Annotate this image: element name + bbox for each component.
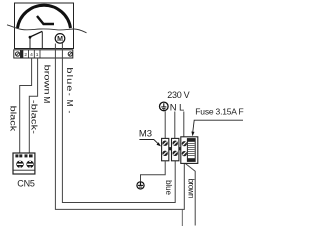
svg-text:Fuse 3.15A F: Fuse 3.15A F: [195, 107, 243, 117]
svg-text:M: M: [57, 36, 63, 43]
svg-text:N: N: [170, 102, 177, 113]
svg-text:blue: blue: [164, 180, 173, 195]
svg-text:black: black: [8, 106, 17, 132]
svg-text:2: 2: [24, 52, 27, 58]
svg-text:brown: brown: [186, 179, 195, 199]
svg-text:230 V: 230 V: [167, 90, 189, 100]
svg-text:brown: brown: [42, 65, 51, 95]
svg-text:1: 1: [36, 52, 39, 58]
svg-text:M: M: [42, 96, 52, 103]
svg-text:CN5: CN5: [17, 179, 35, 189]
svg-text:4: 4: [30, 52, 33, 58]
svg-text:blue: blue: [65, 67, 74, 91]
svg-text:-black-: -black-: [29, 100, 38, 134]
svg-text:M3: M3: [139, 129, 152, 140]
svg-text:-M-: -M-: [65, 93, 75, 114]
